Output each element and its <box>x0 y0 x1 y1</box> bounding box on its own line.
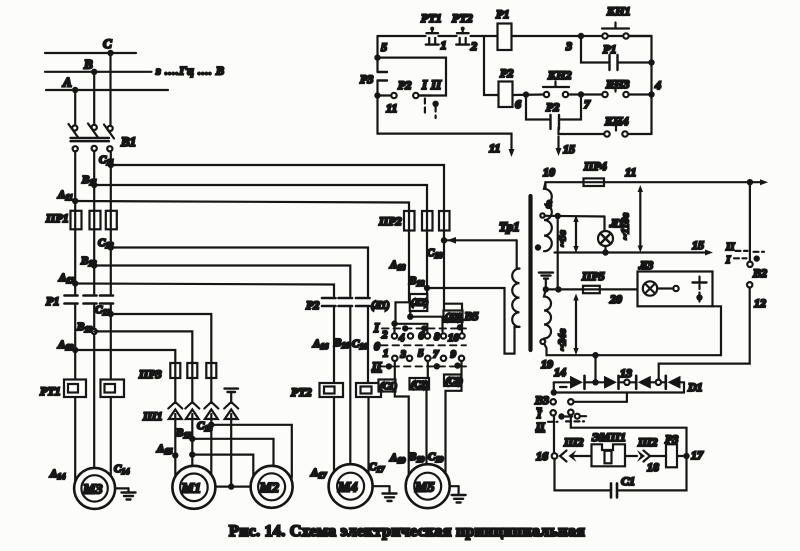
ground above pin4 <box>225 387 239 389</box>
wire phase C column upper <box>110 151 112 211</box>
thermal relay RT1 heater C <box>101 380 125 398</box>
svg-text:В18: В18 <box>408 275 424 288</box>
node 17 <box>683 453 689 459</box>
svg-text:20: 20 <box>609 292 622 306</box>
wire C column mid <box>110 229 112 294</box>
motor M4 <box>329 464 373 508</box>
svg-text:Л3: Л3 <box>638 258 653 272</box>
wire M1 M2 frame link <box>215 486 250 488</box>
wire phase C bus <box>45 52 136 54</box>
svg-text:М1: М1 <box>181 482 201 497</box>
svg-text:В: В <box>83 57 93 72</box>
label (Л3) boxed <box>444 311 463 323</box>
wire to PR5 <box>546 288 583 290</box>
svg-text:~110в: ~110в <box>620 213 632 240</box>
connector SH1 pin 3 <box>204 402 218 409</box>
node under Л2 <box>407 314 413 320</box>
wire C11 bus to PR2 <box>111 165 444 211</box>
node A11 <box>72 198 78 204</box>
contact P2 with plug <box>374 92 380 98</box>
svg-text:В19: В19 <box>408 451 424 464</box>
measure ~24в <box>575 298 577 352</box>
svg-text:В3: В3 <box>534 393 549 407</box>
wire C15 branch to M2 <box>211 425 291 478</box>
arrow 11 rail end <box>750 181 762 183</box>
diode V4 <box>664 376 667 389</box>
node C13 <box>108 311 114 317</box>
arrowhead at C18 feed <box>447 237 456 244</box>
node C15 <box>208 422 214 428</box>
svg-text:2: 2 <box>470 39 477 53</box>
svg-text:3: 3 <box>400 349 407 361</box>
ground at M5 <box>450 485 459 487</box>
svg-text:6: 6 <box>419 330 425 342</box>
wire net 11 rail <box>604 181 750 183</box>
wire C1 to M5 <box>395 392 409 476</box>
node tap line <box>555 213 561 219</box>
wire B drop to B1 <box>93 72 95 124</box>
wire B16 <box>349 308 351 465</box>
diode V2 <box>604 376 617 389</box>
wire A column lower <box>74 305 76 380</box>
svg-text:КН2: КН2 <box>547 68 571 82</box>
svg-text:8: 8 <box>546 197 552 211</box>
wire C18 to Tr1 primary <box>444 239 517 241</box>
switch B2 <box>749 182 751 261</box>
wire A drop to B1 <box>74 90 76 125</box>
svg-text:М4: М4 <box>337 481 357 496</box>
wire C column lower <box>110 305 112 380</box>
diode V1 <box>570 376 583 389</box>
connector SH1 pin 2 <box>185 402 199 409</box>
label (С1) boxed <box>379 380 396 392</box>
svg-text:(Л1): (Л1) <box>371 301 390 312</box>
wire to KH4 row <box>559 128 605 135</box>
capacitor C1 loop <box>555 459 610 491</box>
lamp L3 <box>643 281 657 295</box>
svg-text:16: 16 <box>536 449 548 463</box>
ground at M4 <box>373 485 390 487</box>
svg-text:0: 0 <box>374 339 380 353</box>
switch B1 three-pole knife switch <box>72 125 77 130</box>
wire C to M3 <box>110 397 112 477</box>
Tr1 secondary lower winding <box>544 289 551 338</box>
diode V3 <box>635 376 638 389</box>
svg-text:Р2: Р2 <box>398 78 411 92</box>
wire A to M3 <box>74 397 76 482</box>
svg-text:5: 5 <box>381 40 387 54</box>
svg-text:РТ2: РТ2 <box>291 385 312 399</box>
wire B column mid <box>93 229 95 294</box>
svg-text:(Л2): (Л2) <box>411 298 429 309</box>
wire C18 to contact 10 <box>446 304 463 333</box>
wire C2 to M5 <box>425 390 427 465</box>
bridge return rail <box>683 382 685 392</box>
svg-text:В2: В2 <box>752 266 767 280</box>
svg-text:Ш2: Ш2 <box>637 435 658 449</box>
wire right vertical <box>650 36 652 134</box>
wire cross link to contact 6 <box>395 324 428 333</box>
svg-text:D1: D1 <box>687 380 703 394</box>
svg-text:А: А <box>62 75 72 90</box>
svg-text:А12: А12 <box>58 272 74 285</box>
svg-text:15: 15 <box>692 238 704 252</box>
fuse PR3 pole B <box>187 363 197 378</box>
label (С3) boxed <box>444 375 462 387</box>
svg-text:А14: А14 <box>49 468 65 481</box>
label (Л2) boxed <box>410 294 428 311</box>
svg-text:13: 13 <box>620 366 632 380</box>
wire B15 branch to M2 <box>192 439 273 468</box>
wire phase B column upper <box>93 151 95 211</box>
wire A18 to contact 2 <box>396 302 410 322</box>
svg-text:(Л3): (Л3) <box>445 312 463 323</box>
wire contact1 down <box>394 361 396 379</box>
arrow net 11 down <box>509 149 515 157</box>
svg-text:I: I <box>421 77 428 92</box>
wire phase B bus <box>45 71 152 73</box>
svg-text:РТ1: РТ1 <box>421 11 442 25</box>
wire L3 box to net 19 <box>713 306 722 355</box>
wire B3 to node 16 <box>553 416 555 454</box>
B3 lower contacts <box>551 410 556 415</box>
svg-text:В1: В1 <box>120 134 136 149</box>
svg-text:(С1): (С1) <box>380 381 397 392</box>
svg-text:8: 8 <box>434 331 440 343</box>
wire 19 to bridge <box>594 355 596 382</box>
svg-text:19: 19 <box>541 357 553 371</box>
node B18 junction to Tr1 <box>424 285 430 291</box>
svg-text:I: I <box>725 254 731 266</box>
svg-text:М2: М2 <box>259 481 279 496</box>
svg-text:2: 2 <box>381 329 388 341</box>
Tr1 primary winding <box>517 240 520 268</box>
svg-text:Ш1: Ш1 <box>142 409 163 423</box>
wire C12 to P2 pole <box>111 248 368 297</box>
wire A18 drop <box>408 231 410 303</box>
contact P1 holding <box>581 36 608 63</box>
svg-text:14: 14 <box>554 365 566 379</box>
svg-text:С14: С14 <box>114 463 129 476</box>
svg-text:С1: С1 <box>621 474 635 488</box>
wire C16 <box>367 308 369 384</box>
node pin4 on frame link <box>228 483 234 489</box>
wire top rail <box>378 35 426 37</box>
svg-text:С16: С16 <box>352 338 367 351</box>
ground at Tr1 midpoint <box>539 271 553 273</box>
ground at M3 <box>115 487 128 489</box>
svg-text:15: 15 <box>563 142 575 156</box>
motor M3 <box>74 468 115 509</box>
svg-text:6: 6 <box>515 97 521 111</box>
wire left vertical <box>376 36 378 71</box>
wire net 15 <box>555 251 708 253</box>
svg-text:11: 11 <box>625 165 636 179</box>
connector SH1 pin 4 ground pin <box>224 402 238 409</box>
svg-text:10: 10 <box>448 332 460 344</box>
node A12 <box>72 280 78 286</box>
wire B12 to P2 pole <box>94 266 350 297</box>
node B <box>91 69 97 75</box>
svg-text:7: 7 <box>584 97 591 111</box>
svg-text:РТ2: РТ2 <box>452 11 473 25</box>
thermal relay RT2 heater C <box>356 383 381 397</box>
fuse PR2 pole B <box>422 211 433 231</box>
node 7 <box>578 91 584 97</box>
contact row even 2 4 6 8 10 <box>392 333 397 338</box>
svg-text:II: II <box>430 77 442 92</box>
svg-text:Р1: Р1 <box>46 294 59 308</box>
node second on B15 column <box>189 451 195 457</box>
svg-text:3: 3 <box>565 39 572 53</box>
svg-text:ПР1: ПР1 <box>45 211 69 225</box>
svg-text:ПР2: ПР2 <box>378 214 402 228</box>
svg-text:II: II <box>535 421 545 433</box>
wire B3 II to relay loop <box>570 415 572 428</box>
fuse PR1 pole A <box>71 211 82 230</box>
svg-text:11: 11 <box>386 101 397 115</box>
wire A11 bus to PR2 <box>75 201 409 211</box>
svg-text:С17: С17 <box>369 461 385 474</box>
fuse PR3 pole C <box>206 363 216 378</box>
fuse PR1 pole B <box>90 211 101 230</box>
wire net 20 <box>600 288 638 290</box>
svg-text:В13: В13 <box>76 321 92 334</box>
wire phase A bus <box>46 89 168 91</box>
contact P2 holding <box>526 95 549 120</box>
svg-text:А16: А16 <box>312 338 328 351</box>
svg-text:Р3: Р3 <box>360 72 373 86</box>
svg-text:Ш2: Ш2 <box>563 435 584 449</box>
svg-text:В15: В15 <box>175 427 191 440</box>
node 12 junction <box>656 380 661 385</box>
svg-text:Р2: Р2 <box>306 298 319 312</box>
svg-text:Р1: Р1 <box>496 7 509 21</box>
svg-text:ПР4: ПР4 <box>583 159 607 173</box>
svg-text:М5: М5 <box>414 481 434 496</box>
wire net 12 path <box>659 288 750 380</box>
svg-text:ЭМП1: ЭМП1 <box>592 430 626 444</box>
svg-text:11: 11 <box>489 141 500 155</box>
svg-text:ПР3: ПР3 <box>138 367 162 381</box>
svg-text:Р2: Р2 <box>546 100 559 114</box>
svg-text:(С3): (С3) <box>446 376 463 387</box>
svg-text:РТ1: РТ1 <box>40 384 61 398</box>
svg-text:С13: С13 <box>95 304 110 317</box>
wire C drop to B1 <box>109 53 111 126</box>
svg-text:А13: А13 <box>57 339 73 352</box>
svg-text:В16: В16 <box>333 337 349 350</box>
measure ~5в <box>575 219 577 249</box>
wire bottom rail <box>378 134 512 151</box>
wire node5 box <box>378 58 447 96</box>
svg-text:Тр1: Тр1 <box>499 219 520 234</box>
node C18 junction to Tr1 <box>441 237 447 243</box>
wire C18 drop <box>443 231 445 316</box>
svg-text:10: 10 <box>543 165 555 179</box>
svg-text:А15: А15 <box>156 443 172 456</box>
node C <box>107 50 113 56</box>
node on I row <box>391 320 397 326</box>
wire A12 to P2 pole <box>75 284 334 297</box>
fuse PR2 pole C <box>439 211 450 231</box>
node 6 <box>523 91 529 97</box>
wire contact9 down <box>460 361 462 375</box>
jack contact in L3 box <box>698 277 700 302</box>
motor M2 <box>251 466 293 508</box>
svg-text:II: II <box>725 241 735 253</box>
node B11 <box>91 182 97 188</box>
winding polarity dot <box>535 244 541 250</box>
svg-text:7: 7 <box>433 349 439 361</box>
svg-text:М3: М3 <box>82 483 102 498</box>
node B13 <box>92 329 97 334</box>
svg-text:I: I <box>373 320 380 335</box>
svg-text:С18: С18 <box>427 247 442 260</box>
wire tap to PR5 junction <box>557 217 559 289</box>
wire branch to M2 left <box>192 455 253 478</box>
svg-text:1: 1 <box>383 348 389 360</box>
svg-text:18: 18 <box>647 460 659 474</box>
node B12 <box>91 262 97 268</box>
wire A17 to M4 <box>333 397 335 473</box>
node A13 <box>72 347 78 353</box>
wire B11 bus to PR2 <box>94 185 427 211</box>
svg-text:I: I <box>536 409 542 421</box>
motor M1 <box>172 466 215 509</box>
node C11 <box>108 162 114 168</box>
svg-text:12: 12 <box>754 296 766 310</box>
node 3 <box>578 33 584 39</box>
svg-text:4: 4 <box>398 332 405 344</box>
node A <box>72 87 78 93</box>
node A15 <box>172 452 178 458</box>
svg-text:КН1: КН1 <box>606 4 630 18</box>
wire phase A column upper <box>74 151 76 211</box>
wire C3 to M5 <box>446 386 462 474</box>
svg-text:А19: А19 <box>389 452 405 465</box>
wire C13 to PR3 <box>111 314 212 363</box>
wires PR3 to connector <box>174 378 176 403</box>
wire A column mid <box>74 229 76 294</box>
node C12 <box>108 244 114 250</box>
svg-text:А18: А18 <box>389 259 405 272</box>
wire A13 to PR3 <box>75 350 175 363</box>
wire B13 to PR3 <box>94 331 192 363</box>
wire B18 to Tr1 primary return <box>427 288 520 354</box>
svg-text:4: 4 <box>654 78 661 92</box>
svg-text:5: 5 <box>418 348 424 360</box>
label (С2) boxed <box>410 378 430 390</box>
arrow net 15 down <box>557 137 559 151</box>
fuse PR1 pole C <box>106 211 117 230</box>
svg-text:1: 1 <box>441 38 447 52</box>
svg-text:А11: А11 <box>57 189 73 202</box>
svg-text:ПР5: ПР5 <box>581 269 605 283</box>
svg-text:Р2: Р2 <box>500 66 513 80</box>
svg-text:С19: С19 <box>428 451 443 464</box>
measure ~110в <box>639 189 641 249</box>
svg-text:А17: А17 <box>310 467 327 480</box>
wire A16 <box>333 308 335 384</box>
wire B column lower <box>93 305 95 469</box>
wire B18 drop <box>426 231 428 303</box>
selector I II <box>413 93 418 98</box>
svg-text:В5: В5 <box>464 309 479 323</box>
wire Л2 to contact 8 <box>410 311 442 332</box>
Tr1 secondary upper winding <box>544 182 552 251</box>
svg-text:17: 17 <box>691 448 704 462</box>
node B15 <box>189 436 195 442</box>
wire contact5 down <box>427 361 429 378</box>
node on 11 rail <box>747 179 753 185</box>
left branch: node 5 <box>374 54 380 60</box>
svg-text:~24в: ~24в <box>557 329 569 351</box>
motor M5 <box>406 464 450 508</box>
svg-text:9: 9 <box>451 349 457 361</box>
svg-text:з ....Гц .... В: з ....Гц .... В <box>155 64 225 78</box>
svg-text:С: С <box>103 36 112 51</box>
svg-text:Рис. 14. Схема электрическая п: Рис. 14. Схема электрическая принципиаль… <box>229 523 585 540</box>
relay coil P2 <box>484 36 499 95</box>
wire C17 to M4 <box>367 397 369 474</box>
